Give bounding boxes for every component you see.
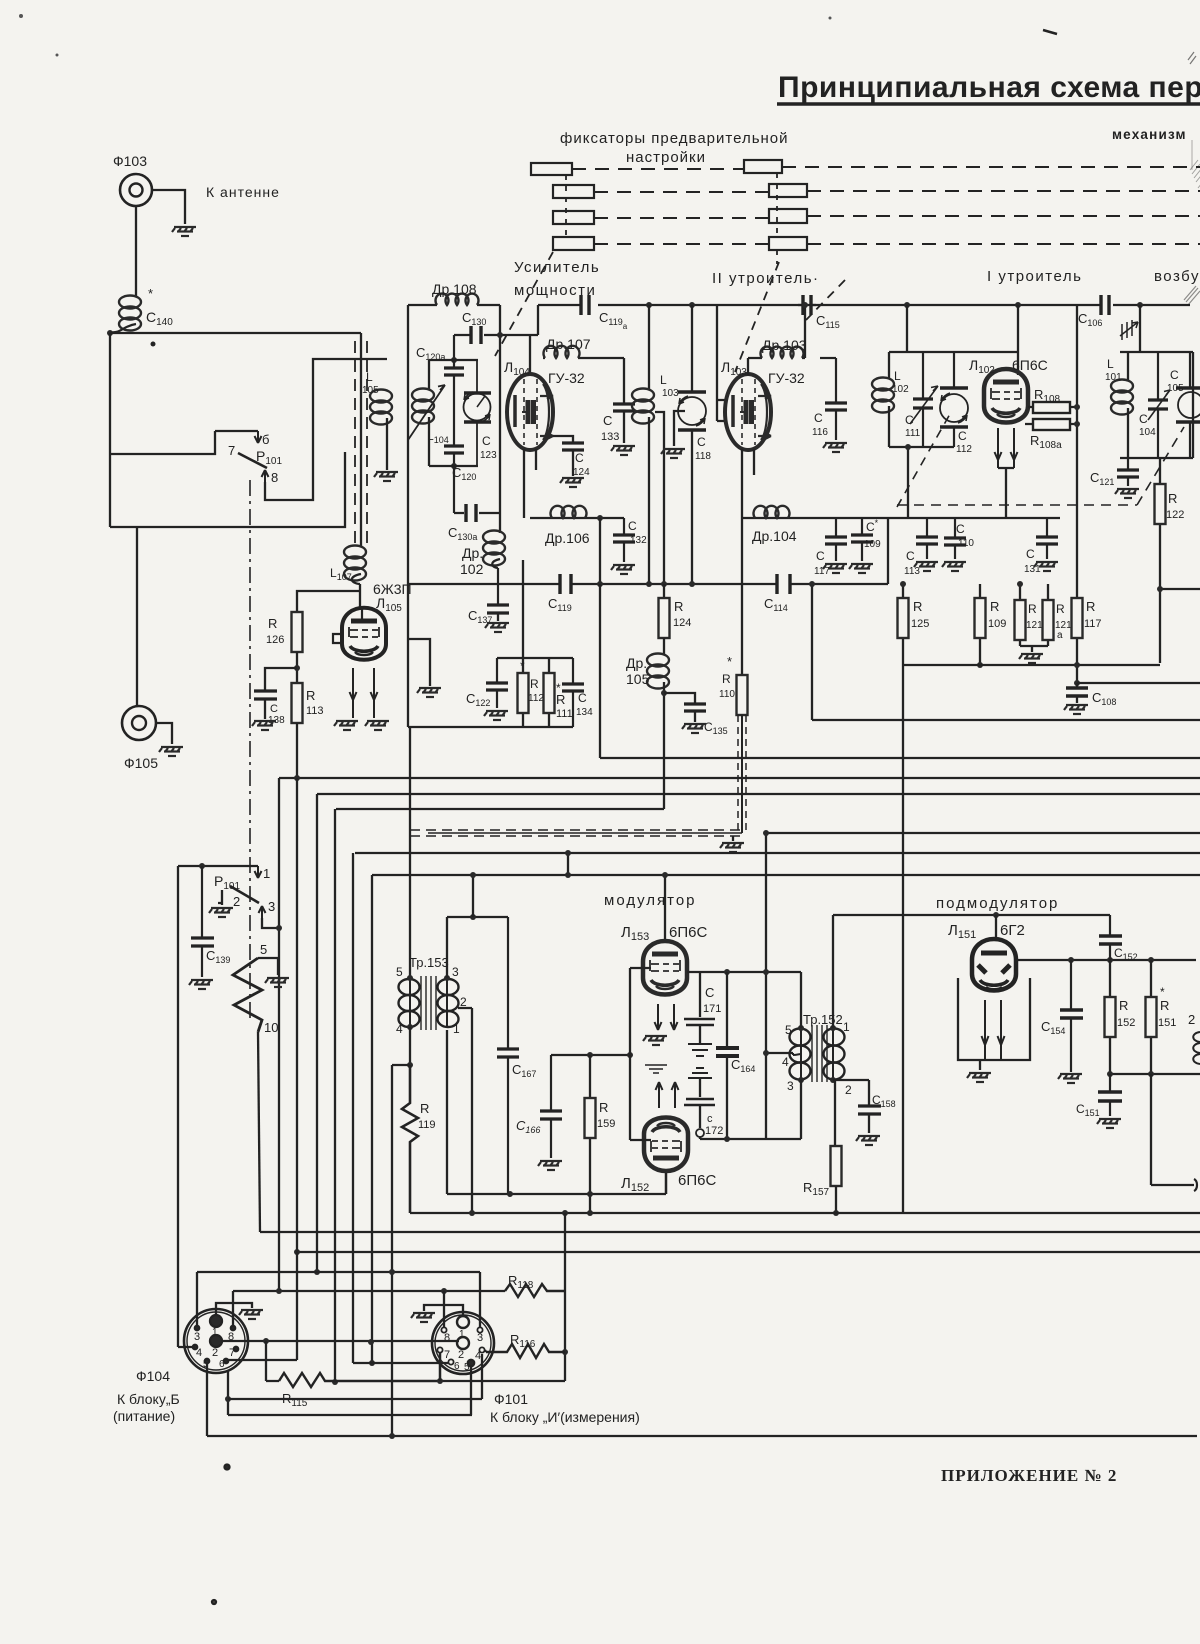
- svg-text:5: 5: [396, 965, 403, 979]
- resistor R119 zigzag: [402, 1065, 418, 1213]
- svg-text:К блоку„Б: К блоку„Б: [117, 1391, 180, 1407]
- coil C140: [119, 296, 141, 331]
- screen box around Л151: [958, 978, 1030, 1060]
- fixator contact bank 1 row4: [553, 237, 594, 250]
- capacitor C110: [944, 518, 966, 559]
- svg-text:2: 2: [845, 1083, 852, 1097]
- svg-text:103: 103: [662, 388, 679, 399]
- svg-text:R: R: [722, 672, 731, 686]
- fixator contact bank 2 row2: [769, 184, 807, 197]
- ground under C158: [856, 1136, 880, 1145]
- svg-text:мощности: мощности: [514, 282, 596, 299]
- resistor bank rail y665: [903, 664, 1160, 666]
- tube Л103 cathode leads: [742, 449, 754, 518]
- contact 8 arrow: [262, 470, 269, 482]
- trimmer C111: [913, 352, 933, 447]
- capacitor C172: [699, 1078, 701, 1097]
- svg-text:Ф101: Ф101: [494, 1391, 528, 1407]
- svg-text:R: R: [1086, 599, 1095, 614]
- wire Ф101 pin4 down-left: [228, 1354, 482, 1399]
- capacitor C164 column: [726, 972, 728, 1139]
- svg-text:110: 110: [958, 538, 974, 549]
- capacitor C139: [191, 866, 214, 977]
- riser from tube cathode x523: [522, 560, 524, 658]
- svg-text:C: C: [482, 434, 491, 448]
- svg-text:3: 3: [452, 965, 459, 979]
- inner tank top: [429, 359, 478, 361]
- svg-text:3: 3: [194, 1331, 200, 1343]
- ground under C121: [1115, 489, 1139, 498]
- connector Ф105: [122, 706, 156, 740]
- resistor R157 column: [834, 1080, 836, 1146]
- svg-text:Др.: Др.: [462, 545, 483, 561]
- capacitor C171 column: [699, 972, 701, 1017]
- wire from Ф103 to ground: [152, 190, 185, 224]
- svg-text:122: 122: [1166, 509, 1184, 521]
- coil L103 column: [648, 305, 650, 389]
- shielded lead of R110: [741, 715, 743, 833]
- svg-text:*: *: [520, 659, 525, 673]
- wire to C138: [265, 668, 297, 691]
- grid wire y960: [1016, 959, 1196, 961]
- svg-text:L: L: [660, 373, 667, 387]
- inverted taper C172 top: [688, 1068, 712, 1078]
- svg-text:124: 124: [673, 617, 691, 629]
- shielded feeder dashed screen: [355, 341, 367, 545]
- capacitor C109*: [851, 518, 873, 561]
- svg-text:6: 6: [219, 1359, 225, 1370]
- wire to x392 drop: [392, 1064, 410, 1066]
- grid wire Л152: [630, 1139, 651, 1141]
- drop x565: [564, 1213, 566, 1381]
- left bus verticals descending: [278, 778, 280, 1291]
- svg-text:5: 5: [260, 942, 267, 957]
- resistor R110 with star: [741, 518, 743, 675]
- resistor R152: [1109, 960, 1111, 1074]
- svg-text:1: 1: [212, 1327, 218, 1338]
- svg-text:10: 10: [264, 1020, 278, 1035]
- svg-text:б: б: [262, 432, 269, 447]
- svg-text:(питание): (питание): [113, 1408, 175, 1424]
- dashed tuning linkage: [897, 427, 1184, 505]
- shield bus dashed: [410, 830, 740, 836]
- svg-text:Принципиальная схема пер: Принципиальная схема пер: [778, 71, 1200, 104]
- resistor R113: [292, 683, 303, 723]
- svg-text:104: 104: [1139, 427, 1156, 438]
- riser x1140: [1139, 305, 1141, 352]
- svg-text:C: C: [697, 435, 706, 449]
- svg-text:1: 1: [459, 1329, 465, 1340]
- connector Ф103: [120, 174, 152, 206]
- svg-text:101: 101: [1105, 372, 1122, 383]
- bias feed vertical x1077: [1076, 305, 1078, 598]
- svg-text:7: 7: [228, 443, 235, 458]
- svg-text:7: 7: [444, 1349, 450, 1361]
- wire y527 down to Ф105: [136, 527, 138, 706]
- riser x907 to tank: [906, 305, 908, 352]
- svg-text:131: 131: [1024, 564, 1041, 575]
- wire pin8 circuit y1291: [233, 1290, 505, 1292]
- svg-text:R: R: [268, 616, 277, 631]
- capacitor C108: [1066, 688, 1088, 696]
- node at antenna junction: [107, 330, 113, 336]
- resistor R109: [979, 584, 981, 665]
- dashed linkage row 2: [594, 191, 1200, 192]
- svg-text:121: 121: [1026, 620, 1043, 631]
- transformer Тр153: [399, 976, 459, 1030]
- svg-text:подмодулятор: подмодулятор: [936, 895, 1059, 912]
- relay arm 7-8: [238, 453, 267, 468]
- capacitor C122: [486, 658, 508, 708]
- wire R113 down to bus: [296, 723, 298, 778]
- svg-text:117: 117: [814, 566, 830, 577]
- cathode leads Л153: [655, 1004, 662, 1030]
- capacitor C132: [613, 518, 635, 562]
- top bus wire with C119a and C115 and C106: [538, 304, 1190, 306]
- bus y1252: [297, 1251, 1200, 1253]
- svg-text:Ф104: Ф104: [136, 1368, 170, 1384]
- capacitor C116: [825, 358, 847, 440]
- choke Др.108: [436, 294, 479, 305]
- riser x600 down to bus1: [599, 584, 601, 758]
- resistor R112*: [522, 658, 524, 727]
- svg-text:4: 4: [782, 1055, 789, 1069]
- svg-text:Ф105: Ф105: [124, 755, 158, 771]
- connector Ф101: [432, 1312, 494, 1374]
- svg-text:II утроитель·: II утроитель·: [712, 270, 820, 287]
- capacitor C117: [825, 518, 847, 561]
- svg-text:8: 8: [444, 1332, 450, 1344]
- coil L107: [344, 546, 366, 581]
- svg-text:6П6С: 6П6С: [1012, 357, 1048, 373]
- node x907 top bus: [904, 302, 910, 308]
- resistor R125: [902, 584, 904, 665]
- R115 to Ф101 pin7: [439, 1352, 441, 1381]
- trimmer C104: [1148, 352, 1168, 458]
- wire y917: [447, 916, 508, 918]
- svg-text:105: 105: [362, 385, 379, 396]
- svg-text:C: C: [956, 522, 965, 536]
- grid side box of Л105: [333, 634, 342, 643]
- wire Ф105 to ground: [156, 723, 172, 744]
- vertical dashed links bank2: [776, 173, 778, 264]
- capacitor C158: [858, 1106, 881, 1114]
- grounds under Л105 cathodes: [334, 721, 358, 730]
- node R126/R113: [296, 652, 298, 683]
- modulator box bottom: [447, 1173, 666, 1194]
- wire top bus riser: [537, 305, 539, 335]
- svg-text:111: 111: [556, 708, 573, 720]
- capacitor C115: [803, 295, 811, 315]
- svg-text:R: R: [1119, 998, 1128, 1013]
- fixator contact bank 1 row3: [553, 211, 594, 224]
- riser to tube Л102: [1017, 305, 1019, 375]
- resistor R117: [1076, 598, 1078, 683]
- ground under Л151 box: [979, 1060, 981, 1070]
- transformer Тр152: [790, 1025, 845, 1082]
- cathode leads Л151: [982, 1000, 989, 1060]
- svg-text:C: C: [814, 411, 823, 425]
- svg-text:123: 123: [480, 450, 497, 461]
- capacitor C119: [560, 574, 571, 594]
- fixator contact bank 2 row1: [744, 160, 782, 173]
- svg-text:124: 124: [573, 467, 590, 478]
- ground under C108: [1064, 705, 1088, 714]
- tank top wire: [1120, 351, 1193, 353]
- svg-text:ГУ-32: ГУ-32: [548, 370, 585, 386]
- ground under C154: [1058, 1074, 1082, 1083]
- adjustment mark above L101: [1120, 320, 1138, 340]
- svg-text:R: R: [530, 677, 539, 691]
- fixator contact bank 2 row3: [769, 209, 807, 223]
- svg-text:105: 105: [626, 671, 650, 687]
- svg-text:Др.107: Др.107: [546, 336, 591, 352]
- svg-text:R: R: [556, 692, 565, 707]
- tube Л152 6П6С (inverted): [644, 1118, 688, 1172]
- svg-text:Др.108: Др.108: [432, 281, 477, 297]
- svg-text:Тр.152: Тр.152: [803, 1012, 843, 1027]
- Ф104 pin3 riser: [196, 1272, 198, 1325]
- coil L105: [370, 390, 392, 425]
- relay P101 contact 6 wire: [215, 430, 258, 432]
- Ф101 pin4 wire to R116: [485, 1350, 486, 1352]
- svg-text:1: 1: [843, 1020, 850, 1034]
- svg-text:2: 2: [458, 1349, 464, 1361]
- capacitor C151: [1098, 1074, 1122, 1116]
- cathode leads Л152 (arrows up): [656, 1082, 663, 1108]
- svg-text:R: R: [420, 1101, 429, 1116]
- Ф101 pin3 riser: [479, 1272, 481, 1327]
- antenna feed vertical in shield: [360, 333, 362, 546]
- fixator contact bank 1 row2: [553, 185, 594, 198]
- capacitor C166: [540, 1055, 562, 1158]
- svg-text:механизм: механизм: [1112, 127, 1187, 142]
- ground under C138: [252, 721, 276, 730]
- choke Др.103: [748, 358, 762, 375]
- svg-text:*: *: [148, 286, 153, 301]
- title underline: [777, 102, 1200, 105]
- svg-text:172: 172: [705, 1125, 723, 1137]
- capacitor C119a: [581, 295, 589, 315]
- node x1140 top bus: [1137, 302, 1143, 308]
- edge connector bracket: [1194, 1179, 1197, 1191]
- svg-text:105: 105: [1167, 383, 1184, 394]
- bus y778: [279, 777, 1200, 779]
- svg-text:Ф103: Ф103: [113, 153, 147, 169]
- tank top wire: [889, 351, 1018, 353]
- ground under C110: [942, 562, 966, 571]
- svg-text:ГУ-32: ГУ-32: [768, 370, 805, 386]
- tube Л103 grid risers: [717, 305, 726, 421]
- resistor R124 column: [663, 584, 665, 598]
- svg-text:К антенне: К антенне: [206, 184, 280, 200]
- svg-text:C: C: [816, 549, 825, 563]
- bus y794: [317, 793, 1200, 795]
- svg-text:3: 3: [268, 899, 275, 914]
- dashed linkage row 1: [572, 167, 1200, 169]
- svg-text:а: а: [1057, 630, 1063, 641]
- wire L105 to ground: [386, 418, 388, 470]
- wire y866: [178, 865, 258, 867]
- page fold hatch top right: [1184, 286, 1200, 305]
- svg-text:R: R: [1168, 491, 1177, 506]
- wire x178 down to connector: [177, 866, 179, 1347]
- L103 tap to R124: [655, 412, 664, 584]
- riser x473: [472, 875, 474, 917]
- wire pin6 Ф101 y1363: [353, 1362, 448, 1364]
- svg-text:ПРИЛОЖЕНИЕ № 2: ПРИЛОЖЕНИЕ № 2: [941, 1466, 1117, 1485]
- svg-text:112: 112: [528, 693, 544, 704]
- wire R151 down to edge connector: [1151, 1074, 1194, 1185]
- bus y853: [355, 852, 1200, 854]
- tube Л151 6Г2: [972, 939, 1016, 991]
- tank bottom wire: [889, 447, 954, 518]
- ground under C132: [611, 565, 635, 574]
- fixator contact bank 1 row1: [531, 163, 572, 175]
- Ф101 pin1 to chassis ground: [424, 1305, 463, 1316]
- ground under C137: [485, 623, 509, 632]
- svg-text:112: 112: [956, 444, 972, 455]
- capacitor C137: [487, 605, 509, 613]
- svg-text:4: 4: [475, 1350, 481, 1362]
- variable capacitor C118 column: [691, 305, 693, 392]
- ground under C124: [560, 478, 584, 487]
- svg-text:132: 132: [630, 535, 647, 546]
- ground at antenna connector: [172, 227, 196, 236]
- contact 2 with ground: [218, 890, 222, 903]
- resistor R115 zigzag: [279, 1373, 440, 1387]
- resistor R122: [1159, 458, 1161, 663]
- capacitor C121: [1117, 458, 1139, 486]
- wire to Ф104 pin6: [224, 1359, 297, 1361]
- pin4 wire to B+ drop: [766, 1052, 793, 1054]
- wire L107 to tube top and R126: [297, 584, 360, 612]
- ground under C122: [484, 711, 508, 720]
- svg-text:159: 159: [597, 1118, 615, 1130]
- resistor R108a: [1025, 423, 1077, 425]
- resistor R108: [1028, 406, 1077, 408]
- stage3 underside rail: [888, 517, 1060, 519]
- ground under C109: [849, 564, 873, 573]
- Ф104 pin1 to chassis ground: [216, 1303, 252, 1315]
- svg-text:R: R: [306, 688, 315, 703]
- capacitor C134: [562, 658, 584, 727]
- resistor R116 zigzag: [486, 1344, 565, 1358]
- ground of shield bus: [732, 836, 734, 841]
- svg-text:R: R: [990, 599, 999, 614]
- svg-text:125: 125: [911, 618, 929, 630]
- ground at Ф105: [159, 747, 183, 756]
- svg-text:102: 102: [892, 384, 909, 395]
- Ф104 pins: [210, 1315, 222, 1327]
- riser x693 from top bus: [689, 302, 695, 308]
- vertical dashed links bank1: [565, 175, 567, 237]
- svg-text:R: R: [1160, 998, 1169, 1013]
- svg-text:с: с: [707, 1113, 713, 1125]
- svg-text:1: 1: [453, 1022, 460, 1036]
- ground under C133: [611, 446, 635, 455]
- bus y809: [336, 808, 664, 810]
- resistor R121: [1019, 584, 1021, 646]
- Ф104 pin5 drop: [206, 1364, 208, 1436]
- choke Др.102 vertical: [483, 531, 505, 566]
- tank box right edge: [499, 305, 501, 533]
- grid wire to bus: [630, 968, 651, 1140]
- title: Принципиальная схема пер(едатчика): [778, 71, 1200, 104]
- svg-text:R: R: [1056, 602, 1065, 616]
- svg-text:3: 3: [787, 1079, 794, 1093]
- contact 1 arrow: [255, 866, 262, 878]
- Ф104 pin numbers: [194, 1327, 235, 1370]
- svg-text:109: 109: [864, 539, 881, 550]
- tube Л104 ГУ-32: [507, 374, 553, 450]
- vertical x904 to lower area: [902, 665, 904, 1213]
- wire to relay common: [110, 431, 215, 454]
- node circle C172: [696, 1129, 704, 1137]
- svg-text:1: 1: [263, 866, 270, 881]
- stage underside rail segment 2: [742, 517, 888, 519]
- small ground mark above Л152: [645, 1065, 667, 1073]
- fixator contact bank 2 row4: [769, 237, 807, 250]
- plate wire y972: [687, 971, 801, 973]
- ground under C116: [823, 443, 847, 452]
- node x1018 top bus: [1015, 302, 1021, 308]
- wire y527 to relay arm: [110, 452, 345, 527]
- bus y1232: [260, 1231, 1200, 1233]
- svg-text:2: 2: [233, 894, 240, 909]
- capacitor C130a: [454, 466, 500, 513]
- svg-text:3: 3: [477, 1332, 483, 1344]
- svg-text:133: 133: [601, 431, 619, 443]
- svg-text:119: 119: [418, 1119, 436, 1131]
- plate lead to box bottom: [665, 1173, 667, 1194]
- svg-text:L: L: [894, 369, 901, 383]
- tube Л102 6П6С: [984, 369, 1028, 423]
- svg-text:C: C: [578, 691, 587, 705]
- grid leak group top rail: [497, 657, 573, 659]
- common ground R121/R121a: [1020, 646, 1048, 652]
- ground under C151: [1097, 1119, 1121, 1128]
- svg-text:126: 126: [266, 634, 284, 646]
- svg-text:113: 113: [904, 566, 920, 577]
- svg-text:6: 6: [454, 1361, 460, 1372]
- wire R115 branch: [266, 1341, 279, 1381]
- relay arm 1-3: [230, 886, 259, 903]
- capacitor C120a: [444, 360, 464, 385]
- svg-text:Др.103: Др.103: [762, 337, 807, 353]
- svg-text:6Г2: 6Г2: [1000, 922, 1025, 939]
- svg-text:5: 5: [464, 1362, 470, 1373]
- wire pin3 circuit y1272: [197, 1271, 480, 1273]
- svg-text:8: 8: [228, 1331, 234, 1343]
- variable capacitor C123: [464, 393, 491, 422]
- svg-text:4: 4: [196, 1347, 202, 1359]
- svg-text:110: 110: [719, 689, 735, 700]
- wire Ф103 down to C140: [135, 206, 137, 296]
- resistor R151*: [1150, 960, 1152, 1074]
- wire antenna branch down: [109, 333, 111, 527]
- rail wire y584: [408, 583, 888, 585]
- svg-text:C: C: [270, 703, 278, 715]
- tube Л105 6Ж3П: [342, 607, 386, 660]
- tank box left edge: [407, 305, 409, 727]
- Ф104 pin4 wire: [178, 1346, 195, 1348]
- cathode leads of Л105 with arrows: [350, 668, 357, 718]
- capacitor C130: [454, 335, 538, 360]
- coil L102: [888, 352, 890, 378]
- svg-text:5: 5: [785, 1023, 792, 1037]
- capacitor C131: [1036, 518, 1058, 559]
